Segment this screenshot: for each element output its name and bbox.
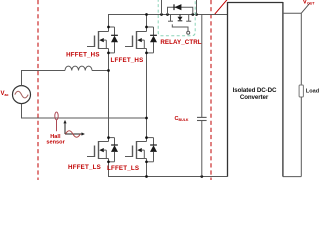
- svg-text:LFFET_HS: LFFET_HS: [111, 57, 144, 64]
- svg-text:Load: Load: [306, 89, 320, 95]
- svg-text:RELAY_CTRL: RELAY_CTRL: [160, 39, 201, 46]
- svg-text:Vac: Vac: [1, 91, 9, 97]
- svg-text:HFFET_HS: HFFET_HS: [66, 52, 100, 59]
- svg-text:LFFET_LS: LFFET_LS: [107, 165, 139, 172]
- svg-text:Isolated DC-DC: Isolated DC-DC: [233, 87, 277, 94]
- svg-text:Converter: Converter: [240, 94, 269, 101]
- svg-text:VOUT: VOUT: [303, 0, 316, 5]
- svg-text:CBULK: CBULK: [175, 116, 189, 122]
- svg-text:sensor: sensor: [46, 140, 65, 146]
- svg-text:HFFET_LS: HFFET_LS: [68, 164, 101, 171]
